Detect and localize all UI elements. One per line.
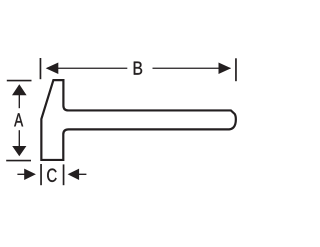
label B	[134, 62, 142, 75]
B tick right	[235, 58, 237, 81]
B arrow left	[46, 62, 59, 74]
C tick right	[63, 164, 65, 185]
dim B line right segment	[153, 67, 231, 69]
dim C stub left	[17, 173, 25, 175]
C arrow pointing right	[24, 169, 36, 180]
dim A vertical line lower	[18, 130, 20, 147]
A tick bottom	[6, 160, 31, 162]
C tick left	[40, 164, 42, 185]
A tick top	[7, 80, 32, 82]
label C	[47, 169, 56, 182]
B arrow right	[219, 62, 232, 74]
ticks	[6, 58, 236, 185]
C arrow pointing left	[68, 169, 80, 180]
A arrow up	[12, 84, 27, 95]
label A	[14, 113, 23, 126]
dim B line left segment	[47, 67, 127, 69]
B tick left	[39, 58, 41, 79]
A arrow down	[12, 146, 26, 156]
hammer outline	[41, 80, 236, 160]
dim A vertical line upper	[18, 94, 20, 108]
dim C stub right	[78, 173, 86, 175]
